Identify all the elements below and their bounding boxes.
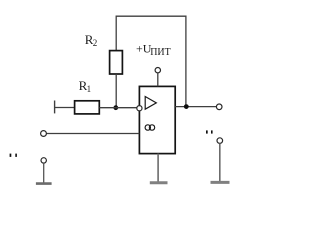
ground lower left [36, 182, 52, 185]
wire input terminal to R1 [55, 107, 75, 109]
junction node output [184, 104, 189, 109]
inverting input inversion circle [137, 106, 142, 111]
wire op-amp bottom to ground [157, 154, 159, 182]
wire op-amp output [175, 106, 216, 108]
wire lower terminal to ground [43, 163, 45, 183]
op-amp U1 body [139, 86, 175, 153]
resistor R1 [75, 101, 100, 114]
noninverting input terminal circle [41, 131, 47, 137]
svg-text:ПИТ: ПИТ [150, 47, 171, 58]
power terminal circle +Upit [155, 68, 160, 73]
wire power terminal to op-amp top [157, 73, 159, 87]
svg-text:2: 2 [93, 38, 98, 48]
op-amp infinity gain symbol [145, 125, 155, 130]
output ground terminal circle [217, 138, 223, 144]
ground lower right [211, 181, 230, 184]
wire noninverting input [46, 133, 139, 135]
quote marks left [10, 154, 12, 157]
ground op-amp [150, 181, 168, 184]
op-amp triangle symbol [145, 97, 156, 110]
wire R1 to op-amp inverting input [99, 107, 136, 109]
svg-text:1: 1 [87, 84, 92, 94]
resistor R2 [110, 51, 123, 74]
wire feedback loop: R2 top to output node [116, 16, 186, 106]
quote marks right [206, 130, 208, 133]
output terminal circle [216, 104, 222, 110]
input terminal bar [54, 101, 56, 114]
junction node inverting input [113, 105, 118, 110]
wire output terminal to ground [219, 143, 221, 181]
lower input terminal circle [41, 158, 46, 163]
wire R2 bottom lead to junction [115, 74, 117, 108]
